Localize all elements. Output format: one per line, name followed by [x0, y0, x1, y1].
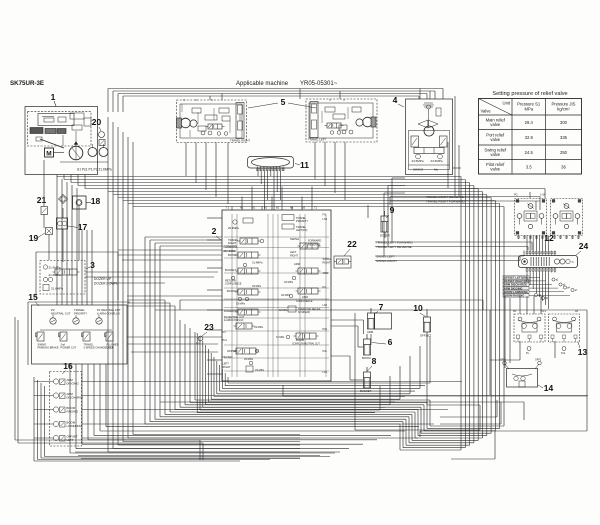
arm cylinder 7: [367, 302, 392, 334]
wire travel left ports: [375, 242, 532, 251]
dozer cylinder 9: [380, 205, 395, 238]
svg-text:PRIORITY: PRIORITY: [296, 219, 309, 223]
svg-text:P2: P2: [323, 285, 327, 289]
svg-text:valve: valve: [490, 167, 500, 172]
wire pilot13 connections: [490, 296, 555, 395]
wire block15 down bundle: [70, 364, 419, 453]
svg-text:Applicable machine: Applicable machine: [236, 81, 289, 87]
svg-text:24.5: 24.5: [525, 150, 534, 155]
main valve boom section: [228, 252, 263, 267]
svg-text:valve: valve: [490, 122, 500, 127]
svg-text:BOOM LOWERING: BOOM LOWERING: [504, 290, 528, 294]
main valve offset section: [227, 348, 264, 372]
port label 23: [196, 322, 214, 346]
svg-text:32 MPa(W): 32 MPa(W): [298, 311, 310, 314]
svg-text:LEFT: LEFT: [223, 362, 230, 366]
svg-text:21.6MPa: 21.6MPa: [49, 273, 61, 277]
svg-text:OFFSET: OFFSET: [227, 349, 238, 353]
svg-text:32 MPa: 32 MPa: [281, 293, 290, 297]
svg-text:32 MPa: 32 MPa: [279, 309, 288, 312]
wire left vertical bundle: [57, 176, 92, 305]
boom cylinder 6: [362, 334, 393, 360]
svg-text:33 MPa: 33 MPa: [254, 325, 263, 329]
wire valve left stubs: [207, 218, 222, 374]
travel pilot valve left 13: [514, 314, 545, 342]
svg-text:31.4MPa: 31.4MPa: [252, 261, 263, 265]
pilot pump P3: [99, 144, 108, 157]
wire far left run: [15, 317, 340, 460]
main pump P1: [69, 142, 83, 160]
travel priority valve 22: [334, 239, 357, 268]
wire hairpin top connectors: [127, 237, 222, 306]
svg-text:a7: a7: [575, 289, 578, 292]
svg-text:Valve: Valve: [481, 109, 492, 114]
label 12: [544, 233, 554, 243]
solenoid valve block 16: [50, 361, 84, 446]
main valve right port labels: [308, 213, 331, 375]
wire boom conflux line: [180, 300, 483, 310]
svg-text:& ARM CONFLUX: & ARM CONFLUX: [97, 312, 120, 316]
line filter: [59, 195, 68, 204]
svg-text:valve: valve: [490, 137, 500, 142]
svg-text:10: 10: [413, 303, 423, 313]
svg-text:33 MPa: 33 MPa: [244, 357, 253, 361]
main control valve 2: [212, 210, 331, 381]
svg-text:ARM: ARM: [294, 262, 301, 266]
svg-text:LEFT(PF): LEFT(PF): [296, 228, 308, 232]
swivel joint 11: [248, 157, 310, 172]
label 13: [578, 342, 588, 357]
pump unit 1: [25, 92, 98, 175]
main valve swing section: [290, 237, 321, 258]
svg-text:24.5MPa: 24.5MPa: [431, 159, 443, 163]
shuttle valve manifold 24: [519, 241, 589, 273]
svg-text:Mu: Mu: [434, 168, 438, 172]
main valve relief top: [228, 215, 309, 233]
svg-text:SWING RIGHT: SWING RIGHT: [376, 259, 397, 263]
svg-text:RIGHT: RIGHT: [228, 241, 237, 245]
svg-text:ARM DIGGING: ARM DIGGING: [504, 286, 523, 290]
wire under-valve tight band: [197, 333, 430, 413]
svg-text:OFFSET RIGHT(RH): OFFSET RIGHT(RH): [504, 279, 529, 283]
svg-text:OFF2: OFF2: [535, 359, 542, 362]
svg-text:6: 6: [388, 337, 393, 347]
svg-text:B3: B3: [302, 206, 306, 210]
svg-text:FORWARD: FORWARD: [308, 239, 321, 243]
wire travel right ports: [390, 197, 540, 211]
svg-text:a1: a1: [556, 279, 559, 282]
svg-text:7: 7: [379, 302, 384, 312]
svg-text:valve: valve: [490, 152, 500, 157]
svg-text:NEUTRAL CUT: NEUTRAL CUT: [51, 312, 71, 316]
svg-text:ARM: ARM: [323, 271, 329, 275]
pilot valve left 12: [515, 199, 547, 236]
svg-text:24: 24: [579, 241, 589, 251]
svg-text:13: 13: [578, 347, 588, 357]
wire block16 left bus: [34, 377, 330, 461]
svg-text:PR: PR: [513, 310, 517, 313]
svg-text:DOZER UP: DOZER UP: [94, 277, 112, 281]
travel pilot details: [513, 310, 578, 355]
svg-text:CONFLUENCE: CONFLUENCE: [296, 300, 313, 303]
svg-text:SWING: SWING: [290, 237, 299, 241]
svg-text:36: 36: [561, 164, 566, 169]
svg-text:REVERSE: REVERSE: [308, 243, 321, 247]
svg-text:18: 18: [91, 196, 101, 206]
svg-text:TRAVEL LEFT FORWARD: TRAVEL LEFT FORWARD: [376, 241, 413, 245]
travel motor right: [177, 99, 251, 143]
svg-text:DOZER(W): DOZER(W): [224, 309, 238, 313]
svg-text:5: 5: [281, 97, 286, 107]
svg-text:32.9: 32.9: [525, 135, 534, 140]
svg-text:& ARM CONFLUX: & ARM CONFLUX: [224, 319, 244, 322]
main valve bucket confluence section: [225, 268, 261, 286]
wire outer loop right: [155, 310, 587, 437]
svg-text:CONFLUENCE: CONFLUENCE: [225, 283, 242, 286]
pilot valve 12 bottom ports: [514, 194, 580, 240]
svg-text:20: 20: [92, 117, 102, 127]
electric motor M: [45, 148, 65, 158]
offset pedal valve 14: [500, 359, 553, 394]
svg-text:LS2: LS2: [323, 303, 328, 307]
svg-text:B1: B1: [252, 206, 256, 210]
wire travel right block drops: [186, 143, 228, 205]
svg-text:16: 16: [63, 361, 73, 371]
svg-text:a4: a4: [567, 287, 570, 290]
svg-text:TRAVEL RIGHT FORWARD: TRAVEL RIGHT FORWARD: [426, 200, 466, 204]
svg-text:29.4MPa: 29.4MPa: [228, 226, 239, 230]
wire top feed bundle: [108, 89, 443, 113]
main valve dozer section: [224, 309, 263, 329]
pilot relief 20: [92, 117, 105, 146]
svg-text:PG: PG: [514, 194, 518, 197]
svg-text:ARM DISCHARGE: ARM DISCHARGE: [504, 283, 527, 287]
svg-text:DOZER DOWN: DOZER DOWN: [94, 282, 118, 286]
wire manifold to pilot13: [520, 273, 549, 315]
wire valve2 to cylinders: [331, 205, 480, 430]
svg-text:LS1: LS1: [323, 370, 328, 374]
wire block16 outputs: [82, 382, 589, 439]
svg-text:32 MPa: 32 MPa: [284, 280, 293, 284]
svg-text:22: 22: [347, 239, 357, 249]
swing port labels: [376, 255, 397, 264]
svg-text:Setting pressure of relief val: Setting pressure of relief valve: [492, 91, 567, 97]
main valve bucket section: [227, 284, 261, 306]
svg-text:21: 21: [37, 195, 47, 205]
svg-text:4: 4: [393, 95, 398, 105]
svg-text:kg/cm²: kg/cm²: [557, 107, 570, 112]
svg-text:24.5MPa: 24.5MPa: [412, 159, 424, 163]
wire pump left drop: [44, 160, 79, 262]
svg-text:YR05-05301~: YR05-05301~: [300, 81, 338, 87]
pilot valve right 12: [551, 199, 583, 236]
svg-text:ARM: ARM: [367, 330, 374, 334]
wire valve top connections: [232, 187, 312, 211]
main valve boom conflux section: [276, 333, 320, 346]
svg-text:DISCHARGE: DISCHARGE: [67, 395, 84, 399]
svg-text:Ps: Ps: [526, 352, 530, 355]
svg-text:335: 335: [560, 135, 568, 140]
svg-text:33 MPa: 33 MPa: [255, 368, 264, 372]
svg-text:15: 15: [28, 292, 38, 302]
svg-text:TRAVEL LEFT REVERSE: TRAVEL LEFT REVERSE: [376, 245, 412, 249]
wire swing motor drops: [384, 142, 461, 256]
svg-text:RIGHT: RIGHT: [290, 254, 298, 258]
svg-text:BOOM RAISING: BOOM RAISING: [504, 294, 524, 298]
svg-text:Unit: Unit: [503, 101, 511, 106]
svg-text:POWER CUT: POWER CUT: [61, 346, 77, 350]
wire corner cluster right: [440, 400, 501, 459]
svg-text:1: 1: [51, 92, 56, 102]
svg-text:P1: P1: [223, 330, 227, 334]
title model number: [10, 80, 44, 87]
main valve overload relief: [279, 306, 321, 314]
main valve left port labels upper: [224, 245, 237, 254]
wire hairpin bundle right verticals: [145, 177, 504, 451]
main valve arm section: [284, 262, 321, 284]
svg-text:S1 Ps1 P1 P2 21.6MPa: S1 Ps1 P1 P2 21.6MPa: [77, 168, 112, 172]
svg-text:Ps1: Ps1: [223, 338, 228, 342]
svg-text:TRAVEL RIGHT: TRAVEL RIGHT: [230, 139, 250, 143]
label 5 travel motors: [248, 97, 316, 108]
svg-text:8: 8: [372, 356, 377, 366]
svg-text:14: 14: [544, 383, 554, 393]
wire swing ports: [375, 251, 524, 261]
svg-text:ARM: ARM: [302, 295, 308, 299]
svg-text:PL1: PL1: [542, 310, 547, 313]
wire pump down bundle: [108, 117, 300, 452]
svg-text:2: 2: [212, 226, 217, 236]
svg-text:T1: T1: [226, 206, 230, 210]
svg-text:BUCKET: BUCKET: [225, 268, 236, 272]
pump case drain line: [60, 162, 112, 172]
check valve 19: [29, 228, 53, 244]
svg-text:Ps2: Ps2: [561, 352, 566, 355]
svg-text:≈: ≈: [572, 260, 575, 265]
solenoid valve 17: [57, 218, 88, 232]
svg-text:P3: P3: [196, 342, 200, 346]
svg-text:OFFSET: OFFSET: [223, 355, 234, 359]
wire travel left block drops: [315, 142, 345, 200]
title applicable machine: [236, 81, 338, 87]
svg-text:DIGGING: DIGGING: [67, 381, 79, 385]
svg-text:300: 300: [560, 120, 568, 125]
svg-text:B2: B2: [276, 206, 280, 210]
dozer port labels: [94, 277, 118, 286]
svg-text:Pck: Pck: [323, 349, 328, 353]
svg-text:TRAVEL LEFT: TRAVEL LEFT: [308, 138, 326, 142]
travel left port labels: [376, 241, 413, 250]
wire pilot12 to manifold: [527, 236, 549, 251]
swing motor unit 4: [393, 95, 453, 175]
svg-text:11: 11: [300, 160, 309, 170]
main valve travel right section: [228, 238, 264, 245]
pilot port cascade: [534, 278, 578, 300]
svg-text:REVERSE: REVERSE: [224, 249, 237, 253]
svg-text:LS3: LS3: [323, 217, 328, 221]
main valve top ports: [226, 206, 318, 210]
svg-text:LOWERING: LOWERING: [67, 424, 82, 428]
svg-text:PRIORITY: PRIORITY: [74, 312, 87, 316]
pilot line labels list: [503, 276, 570, 298]
relief valve setting table: [479, 91, 582, 174]
valve block 18: [73, 196, 101, 209]
svg-text:29.4: 29.4: [525, 120, 534, 125]
offset cylinder 10: [413, 303, 431, 338]
wire left area to valve horizontals: [118, 250, 222, 352]
wire block3 wrap: [28, 252, 130, 365]
main valve left port labels lower: [223, 330, 234, 369]
svg-text:BUCKET: BUCKET: [227, 289, 238, 293]
svg-text:FORWARD: FORWARD: [224, 245, 237, 249]
svg-text:SWING: SWING: [323, 257, 332, 261]
pressure switch block 15: [28, 292, 127, 364]
svg-text:M: M: [46, 151, 51, 158]
svg-text:FS: FS: [323, 213, 327, 217]
svg-text:BOOM: BOOM: [362, 356, 371, 360]
svg-text:33 MPa: 33 MPa: [236, 302, 245, 306]
svg-text:OFFSET LEFT(RH): OFFSET LEFT(RH): [504, 276, 528, 280]
svg-text:RIGHT: RIGHT: [223, 365, 231, 369]
svg-text:23: 23: [204, 322, 214, 332]
svg-text:33 MPa: 33 MPa: [252, 284, 261, 288]
svg-text:31 MPa: 31 MPa: [276, 336, 285, 339]
svg-text:MPa: MPa: [524, 107, 533, 112]
svg-text:PARKING BRAKE: PARKING BRAKE: [38, 346, 59, 350]
relief valve 21: [37, 195, 48, 215]
svg-text:RIGHT: RIGHT: [323, 261, 331, 265]
travel pilot valve right 13: [549, 314, 580, 342]
svg-text:T2: T2: [314, 206, 318, 210]
main valve arm2 section: [281, 288, 321, 303]
travel right port labels: [426, 195, 466, 204]
wire swivel joint drops: [258, 171, 280, 210]
svg-text:TRAVEL RIGHT REVERSE: TRAVEL RIGHT REVERSE: [426, 195, 464, 199]
travel motor left: [306, 99, 377, 142]
svg-text:CONFLUX(NEUTRAL CUT: CONFLUX(NEUTRAL CUT: [292, 343, 320, 346]
wire top feed drops: [210, 89, 545, 199]
dozer valve 3: [40, 260, 95, 294]
bucket cylinder 8: [360, 356, 377, 393]
svg-text:Pd1: Pd1: [323, 327, 328, 331]
svg-text:SWING LEFT: SWING LEFT: [376, 255, 395, 259]
svg-text:SWING: SWING: [413, 168, 424, 172]
pump P2: [88, 144, 97, 157]
svg-text:SK75UR-3E: SK75UR-3E: [10, 80, 44, 87]
svg-text:LR: LR: [575, 310, 578, 313]
svg-text:3.5: 3.5: [526, 164, 532, 169]
wire hairpin bundle left verticals: [145, 237, 195, 424]
wire mid horizontal bundle: [57, 175, 504, 207]
svg-text:OFFSET: OFFSET: [420, 334, 431, 338]
svg-text:LEFT: LEFT: [290, 250, 297, 254]
svg-text:3: 3: [90, 260, 95, 270]
wire block3 to valve: [85, 272, 218, 283]
svg-text:250: 250: [560, 150, 568, 155]
